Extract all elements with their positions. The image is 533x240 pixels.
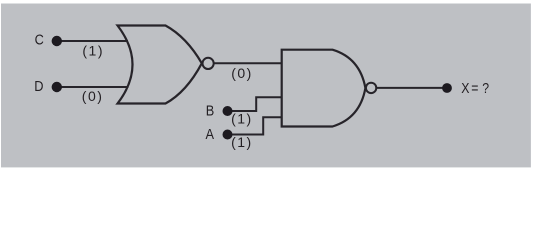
svg-text:(1): (1) (231, 134, 253, 150)
svg-text:(0): (0) (231, 65, 253, 81)
svg-text:X: X (461, 80, 469, 96)
node A terminal dot (223, 130, 233, 140)
wire B stepped (228, 97, 282, 111)
wire NOR output to NAND input 1 (214, 62, 282, 64)
wire A stepped (228, 117, 282, 134)
wire NAND output (377, 87, 447, 89)
svg-text:?: ? (482, 80, 489, 96)
NOR gate U1 output bubble (203, 58, 214, 69)
node D terminal dot (52, 82, 62, 92)
svg-text:(0): (0) (82, 88, 104, 104)
wire D input (57, 86, 129, 88)
svg-text:D: D (34, 77, 43, 94)
wire C input (57, 40, 128, 42)
svg-text:B: B (206, 102, 215, 119)
svg-text:=: = (471, 80, 478, 96)
NOR gate U1 body (118, 26, 202, 104)
svg-text:(1): (1) (82, 43, 104, 59)
node X output dot (442, 83, 452, 93)
node B terminal dot (223, 106, 233, 116)
node C terminal dot (52, 36, 62, 46)
NAND gate U2 output bubble (366, 83, 376, 93)
panel background (1, 4, 531, 168)
svg-text:(1): (1) (231, 110, 253, 126)
svg-text:A: A (205, 125, 214, 142)
svg-text:C: C (35, 31, 44, 48)
NAND gate U2 body (282, 50, 366, 127)
